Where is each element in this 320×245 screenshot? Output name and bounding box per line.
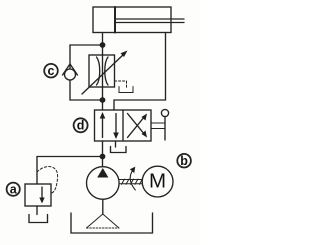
flow control adjustment arrow — [82, 54, 125, 95]
flow control wire through valve — [102, 55, 104, 110]
label a — [7, 183, 20, 197]
svg-text:b: b — [180, 154, 188, 168]
svg-text:c: c — [48, 64, 55, 78]
wire: T port to tank symbol — [115, 141, 117, 147]
relief pilot line (dashed) — [37, 167, 58, 193]
wire: P port to pump — [102, 141, 104, 167]
label b — [177, 154, 191, 168]
svg-text:d: d — [77, 119, 85, 133]
svg-text:M: M — [149, 170, 166, 193]
pump P1 — [87, 167, 120, 200]
wire: branch to relief valve — [37, 156, 103, 158]
wire: relief valve feed — [36, 157, 38, 185]
flow control valve V1 body — [89, 55, 115, 87]
left position arrows — [102, 115, 104, 138]
wire: check loop bottom — [70, 99, 103, 101]
rotation arrow — [130, 167, 135, 190]
wire: pump suction — [102, 199, 104, 214]
node: junction to relief valve — [100, 154, 106, 160]
label c — [44, 64, 58, 78]
svg-text:a: a — [10, 183, 18, 197]
wire: relief valve to tank — [36, 206, 38, 215]
right position crossed arrows — [128, 116, 146, 138]
relief valve arrow — [41, 187, 43, 200]
drive shaft — [119, 179, 142, 184]
node: junction at top of check loop — [100, 42, 106, 48]
wire: check loop top — [70, 44, 103, 46]
suction strainer — [87, 214, 120, 228]
cylinder piston — [114, 7, 116, 33]
electric motor M1 — [142, 166, 173, 197]
cylinder rod — [115, 18, 184, 20]
lever operator — [151, 109, 169, 140]
reservoir tank — [71, 213, 153, 233]
tank symbol at valve — [111, 147, 127, 153]
wire: cylinder rod port line — [114, 33, 166, 111]
wire: cylinder cap port down to check loop — [102, 33, 104, 56]
wire: check loop left branch — [69, 45, 71, 100]
drain tank symbol — [119, 87, 133, 93]
directional valve U1 body (2-pos 4-way) — [95, 110, 152, 141]
label d — [74, 118, 88, 132]
cylinder (double-acting) body — [93, 7, 171, 33]
node: junction at bottom of check loop — [100, 97, 106, 103]
flow control drain line (dashed) — [115, 81, 127, 88]
relief valve body — [25, 184, 51, 206]
flow control throttle arcs — [97, 57, 100, 85]
check valve (bypass) — [63, 64, 78, 80]
tank symbol at relief valve — [29, 215, 48, 223]
